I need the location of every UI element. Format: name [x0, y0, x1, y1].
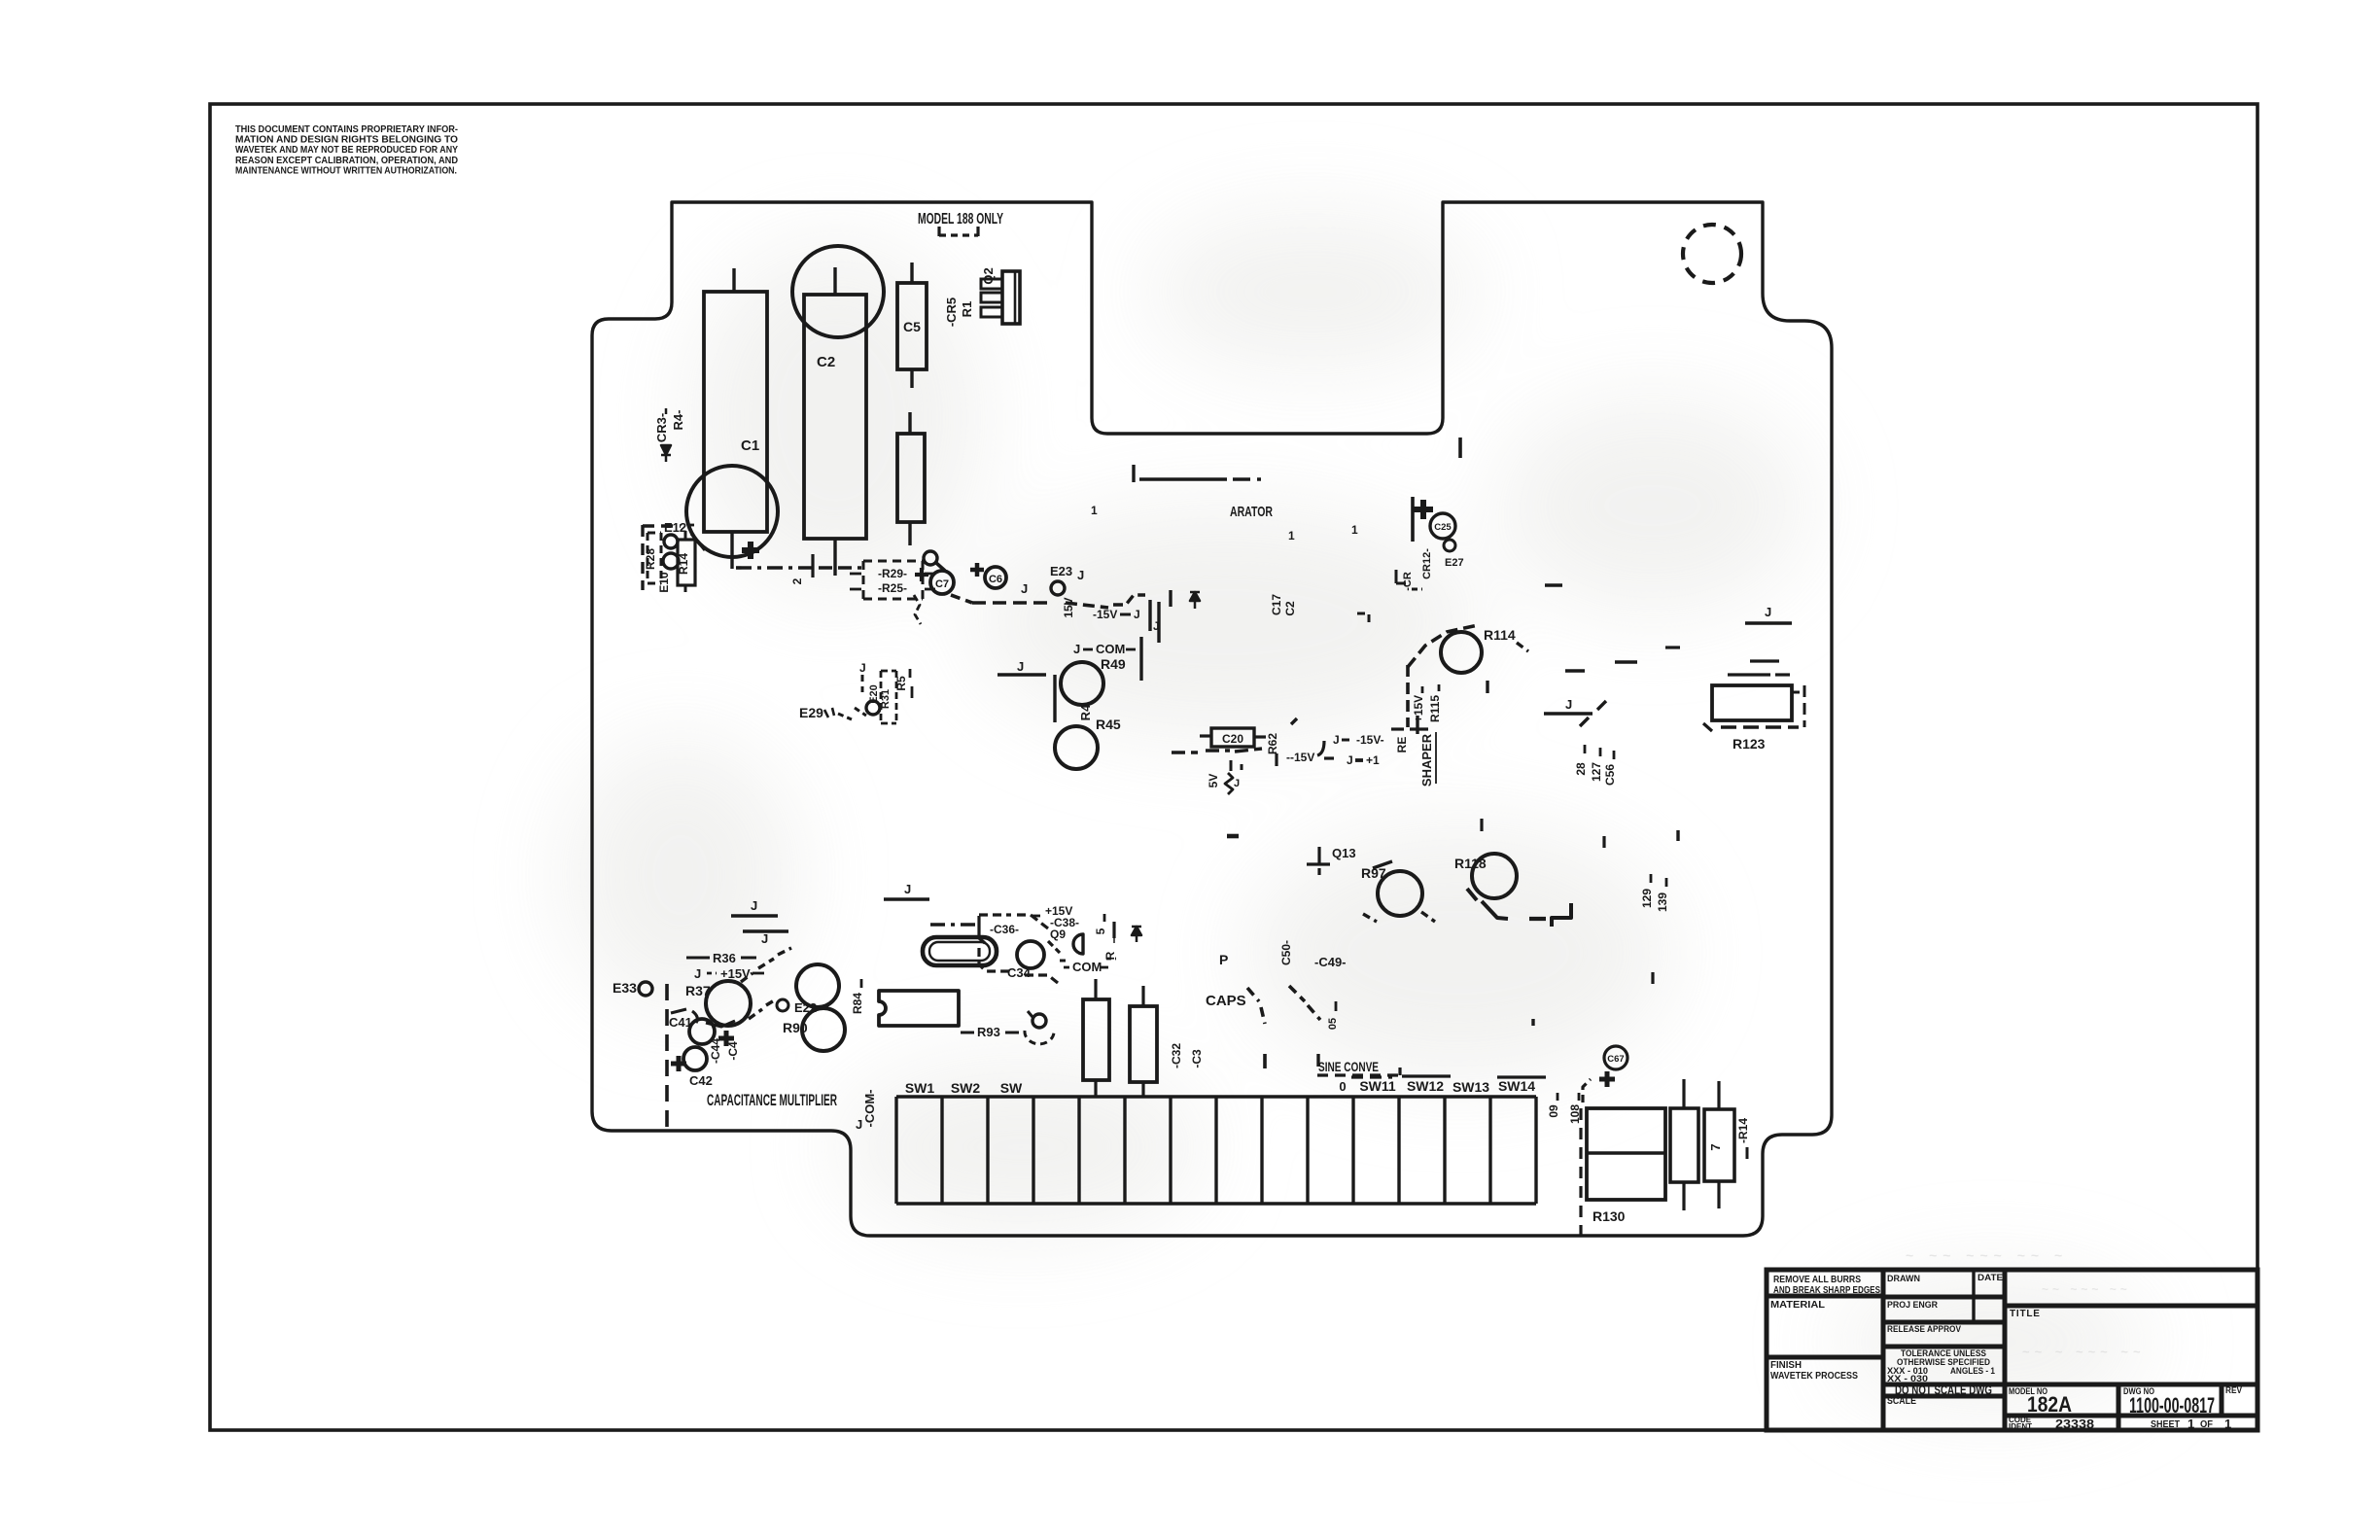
svg-text:OF: OF — [2200, 1419, 2213, 1430]
svg-text:THIS DOCUMENT CONTAINS PROPRIE: THIS DOCUMENT CONTAINS PROPRIETARY INFOR… — [235, 124, 458, 135]
svg-text:C6: C6 — [989, 574, 1002, 585]
svg-text:TITLE: TITLE — [2010, 1309, 2041, 1319]
svg-text:J: J — [1333, 733, 1340, 747]
svg-text:7: 7 — [1708, 1143, 1723, 1150]
svg-text:~~ ~~~ ~~: ~~ ~~~ ~~ — [2042, 1282, 2131, 1296]
svg-text:J: J — [1017, 659, 1024, 674]
svg-text:SW11: SW11 — [1359, 1078, 1396, 1094]
svg-text:CR3-: CR3- — [654, 413, 669, 442]
svg-text:05: 05 — [1327, 1018, 1339, 1030]
svg-text:-15V: -15V — [1093, 608, 1117, 621]
svg-text:E10: E10 — [657, 572, 671, 593]
svg-text:139: 139 — [1656, 892, 1669, 912]
svg-text:C2: C2 — [1283, 601, 1297, 616]
svg-text:P: P — [1219, 952, 1228, 967]
svg-text:SW2: SW2 — [951, 1080, 981, 1096]
svg-text:MODEL 188 ONLY: MODEL 188 ONLY — [918, 211, 1003, 227]
svg-text:C5: C5 — [903, 319, 921, 334]
svg-text:WAVETEK AND MAY NOT BE REPRODU: WAVETEK AND MAY NOT BE REPRODUCED FOR AN… — [235, 145, 458, 156]
svg-text:J: J — [1134, 608, 1140, 621]
svg-text:1: 1 — [1288, 529, 1295, 542]
svg-text:R114: R114 — [1484, 627, 1516, 643]
svg-text:J: J — [1021, 581, 1028, 596]
svg-text:WAVETEK PROCESS: WAVETEK PROCESS — [1770, 1371, 1858, 1382]
svg-text:RELEASE APPROV: RELEASE APPROV — [1887, 1324, 1962, 1335]
svg-text:Q9: Q9 — [1050, 927, 1066, 941]
svg-text:R115: R115 — [1428, 695, 1442, 722]
svg-text:R130: R130 — [1592, 1208, 1626, 1224]
svg-text:C1: C1 — [741, 437, 759, 454]
svg-text:R14: R14 — [677, 553, 690, 575]
svg-text:SCALE: SCALE — [1887, 1396, 1916, 1407]
svg-text:J: J — [694, 966, 701, 981]
svg-text:SHEET: SHEET — [2151, 1419, 2180, 1430]
svg-text:-CR5: -CR5 — [944, 297, 959, 327]
svg-text:J: J — [1234, 778, 1240, 789]
svg-text:SW1: SW1 — [905, 1080, 935, 1096]
svg-text:R28: R28 — [644, 548, 657, 570]
svg-text:-R25-: -R25- — [878, 581, 907, 595]
svg-text:1: 1 — [1091, 504, 1098, 517]
svg-text:J: J — [859, 661, 866, 675]
svg-text:182A: 182A — [2027, 1392, 2072, 1417]
svg-text:SW13: SW13 — [1452, 1079, 1489, 1095]
svg-text:E27: E27 — [1445, 557, 1464, 569]
svg-text:J: J — [856, 1117, 862, 1132]
svg-text:SW14: SW14 — [1498, 1078, 1535, 1094]
svg-text:R62: R62 — [1266, 733, 1279, 754]
svg-text:-C32: -C32 — [1170, 1043, 1183, 1068]
svg-text:1: 1 — [2224, 1417, 2231, 1431]
svg-text:--15V: --15V — [1286, 751, 1314, 764]
svg-text:REMOVE ALL BURRS: REMOVE ALL BURRS — [1773, 1275, 1861, 1285]
svg-text:C20: C20 — [1222, 732, 1243, 746]
svg-text:E29: E29 — [799, 705, 823, 720]
svg-text:C7: C7 — [935, 578, 949, 590]
svg-text:~~ ~ ~~~ ~~: ~~ ~ ~~~ ~~ — [2022, 1345, 2146, 1359]
svg-text:R93: R93 — [977, 1025, 1000, 1039]
svg-text:-R29-: -R29- — [878, 567, 907, 580]
svg-text:09: 09 — [1547, 1104, 1560, 1118]
svg-text:28: 28 — [1574, 762, 1588, 776]
svg-text:127: 127 — [1590, 762, 1603, 782]
svg-text:-R14: -R14 — [1736, 1118, 1750, 1143]
svg-text:1: 1 — [2187, 1417, 2194, 1431]
svg-text:C2: C2 — [817, 354, 835, 370]
svg-text:CR12-: CR12- — [1421, 548, 1433, 579]
svg-text:AND BREAK SHARP EDGES: AND BREAK SHARP EDGES — [1773, 1285, 1880, 1296]
svg-text:DRAWN: DRAWN — [1887, 1274, 1920, 1284]
svg-text:R123: R123 — [1732, 736, 1766, 752]
svg-text:E23: E23 — [1050, 564, 1072, 578]
svg-text:ANGLES - 1: ANGLES - 1 — [1950, 1366, 1995, 1376]
svg-text:RE: RE — [1395, 737, 1409, 753]
svg-text:MATION AND DESIGN RIGHTS BELON: MATION AND DESIGN RIGHTS BELONGING TO — [235, 135, 458, 146]
svg-text:J: J — [1347, 753, 1353, 767]
svg-text:2: 2 — [790, 577, 804, 584]
svg-text:E33: E33 — [612, 980, 637, 996]
svg-text:DATE: DATE — [1977, 1273, 2003, 1283]
svg-text:23338: 23338 — [2055, 1417, 2094, 1431]
svg-text:REASON EXCEPT CALIBRATION, OPE: REASON EXCEPT CALIBRATION, OPERATION, AN… — [235, 156, 458, 166]
svg-text:+1: +1 — [1366, 753, 1380, 767]
svg-text:R49: R49 — [1101, 656, 1126, 672]
svg-text:J: J — [1765, 605, 1771, 619]
svg-text:FINISH: FINISH — [1770, 1360, 1802, 1371]
svg-text:SW12: SW12 — [1407, 1078, 1444, 1094]
svg-text:CAPACITANCE MULTIPLIER: CAPACITANCE MULTIPLIER — [707, 1091, 837, 1109]
svg-text:COM: COM — [1096, 642, 1125, 656]
svg-text:E20: E20 — [868, 684, 880, 704]
svg-text:129: 129 — [1640, 889, 1654, 908]
svg-text:SW: SW — [1000, 1080, 1023, 1096]
svg-text:C42: C42 — [689, 1073, 713, 1088]
svg-text:Q2: Q2 — [981, 267, 996, 284]
svg-text:R1: R1 — [960, 301, 974, 318]
svg-text:J: J — [904, 882, 911, 896]
svg-text:J: J — [1073, 642, 1080, 656]
svg-text:-C3: -C3 — [1190, 1049, 1204, 1068]
svg-text:SHAPER: SHAPER — [1419, 733, 1434, 787]
svg-text:J: J — [1565, 697, 1572, 712]
svg-text:MATERIAL: MATERIAL — [1770, 1300, 1825, 1311]
svg-text:R45: R45 — [1096, 717, 1121, 732]
svg-text:SINE CONVE: SINE CONVE — [1318, 1059, 1379, 1074]
svg-text:REV: REV — [2225, 1385, 2242, 1395]
svg-text:-15V-: -15V- — [1356, 733, 1384, 747]
svg-text:R84: R84 — [851, 993, 864, 1014]
svg-text:J: J — [1077, 568, 1084, 582]
svg-text:+15V: +15V — [1412, 695, 1425, 722]
svg-text:1: 1 — [1351, 523, 1358, 537]
svg-text:R4: R4 — [1078, 704, 1093, 720]
svg-text:-C36-: -C36- — [990, 923, 1019, 936]
svg-text:XX - 030: XX - 030 — [1887, 1374, 1928, 1383]
svg-text:CAPS: CAPS — [1206, 993, 1246, 1009]
svg-text:PROJ ENGR: PROJ ENGR — [1887, 1300, 1938, 1311]
svg-text:R5: R5 — [894, 676, 908, 691]
svg-text:-C4: -C4 — [726, 1041, 740, 1061]
svg-text:C56: C56 — [1603, 764, 1617, 786]
svg-text:ARATOR: ARATOR — [1230, 504, 1273, 520]
svg-text:C34: C34 — [1007, 965, 1032, 980]
svg-text:R36: R36 — [713, 951, 736, 965]
svg-text:C50-: C50- — [1279, 940, 1293, 965]
svg-text:5V: 5V — [1207, 774, 1220, 788]
svg-text:COM: COM — [1072, 960, 1102, 974]
svg-text:MAINTENANCE WITHOUT WRITTEN AU: MAINTENANCE WITHOUT WRITTEN AUTHORIZATIO… — [235, 165, 457, 176]
svg-text:-COM-: -COM- — [862, 1090, 877, 1128]
svg-text:C25: C25 — [1434, 522, 1452, 533]
svg-text:-C49-: -C49- — [1314, 955, 1347, 969]
svg-text:0: 0 — [1339, 1079, 1346, 1094]
svg-text:J: J — [761, 931, 768, 946]
svg-text:Q13: Q13 — [1332, 846, 1356, 860]
svg-text:~ ~~ ~~~ ~~ ~: ~ ~~ ~~~ ~~ ~ — [1906, 1247, 2068, 1263]
svg-text:J: J — [751, 898, 757, 913]
svg-text:J: J — [1153, 619, 1160, 633]
svg-text:C17: C17 — [1270, 594, 1283, 615]
svg-text:5: 5 — [1094, 927, 1107, 934]
svg-text:C67: C67 — [1607, 1054, 1624, 1065]
svg-text:15V: 15V — [1062, 597, 1075, 617]
svg-text:1100-00-0817: 1100-00-0817 — [2129, 1393, 2215, 1417]
svg-text:IDENT: IDENT — [2009, 1422, 2032, 1431]
svg-text:DO NOT SCALE DWG: DO NOT SCALE DWG — [1895, 1383, 1992, 1397]
svg-text:E12: E12 — [664, 520, 686, 535]
svg-text:-C44: -C44 — [709, 1038, 722, 1064]
svg-text:R4-: R4- — [671, 410, 685, 431]
